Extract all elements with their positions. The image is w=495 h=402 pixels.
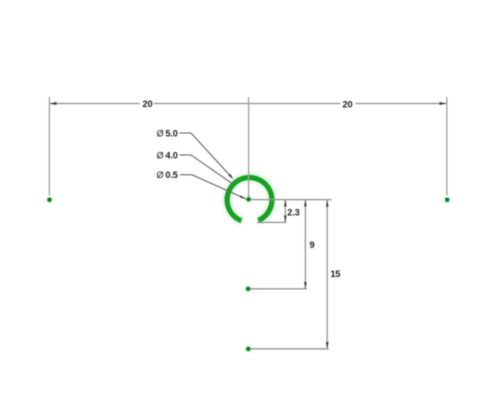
dot: 15mm point bbox=[245, 346, 251, 352]
svg-text:20: 20 bbox=[143, 99, 153, 109]
svg-text:Ø4.0: Ø4.0 bbox=[157, 150, 178, 160]
arrow: 2.3 bottom bbox=[284, 215, 287, 222]
wire: top dimension line (middle segment) bbox=[154, 103, 341, 105]
arrow: 2.3 top bbox=[284, 200, 287, 207]
wire: top dimension line (right segment) bbox=[355, 103, 446, 105]
arrow: 15 top bbox=[326, 200, 329, 207]
arrow: leader 5.0 head bbox=[228, 174, 233, 180]
dim 15: vertical line bbox=[326, 200, 328, 349]
svg-text:15: 15 bbox=[330, 269, 340, 279]
arrow: right end of 20/20 dimension bbox=[439, 102, 446, 105]
svg-text:20: 20 bbox=[343, 99, 353, 109]
svg-text:9: 9 bbox=[310, 240, 315, 250]
arrow: 9 bottom bbox=[304, 282, 307, 289]
leader: diameter 5.0 bbox=[180, 133, 232, 177]
leader: diameter 0.5 bbox=[180, 175, 246, 199]
dim 9: vertical line bbox=[304, 200, 306, 289]
arrow: 15 bottom bbox=[326, 342, 329, 349]
wire: center extension line bbox=[248, 97, 250, 198]
dim 2.3: vertical line bbox=[284, 200, 286, 223]
dot: 9mm point bbox=[245, 286, 251, 292]
ring: green C-shaped reticle circle bbox=[227, 177, 272, 220]
dot: right point bbox=[444, 197, 450, 203]
svg-text:2.3: 2.3 bbox=[287, 207, 299, 217]
leader: diameter 4.0 (drawn under ring) bbox=[180, 155, 236, 186]
dot: center point bbox=[246, 196, 252, 202]
arrow: 9 top bbox=[304, 200, 307, 207]
ring glow bbox=[227, 177, 272, 220]
dim 15: bottom horizontal line bbox=[248, 348, 329, 350]
dim 9: bottom horizontal line bbox=[248, 288, 307, 290]
wire: right extension line bbox=[446, 97, 448, 195]
wire: top dimension line (left segment) bbox=[49, 103, 139, 105]
wire: horizontal reference line from center bbox=[249, 199, 332, 201]
arrow: leader 0.5 head bbox=[240, 195, 246, 199]
svg-text:Ø0.5: Ø0.5 bbox=[157, 170, 178, 180]
wire: left extension line bbox=[48, 97, 50, 195]
dot: left point bbox=[46, 197, 52, 203]
dim 2.3: bottom horizontal line bbox=[257, 221, 287, 223]
svg-text:Ø5.0: Ø5.0 bbox=[157, 128, 178, 138]
arrow: left end of 20/20 dimension bbox=[49, 102, 56, 105]
